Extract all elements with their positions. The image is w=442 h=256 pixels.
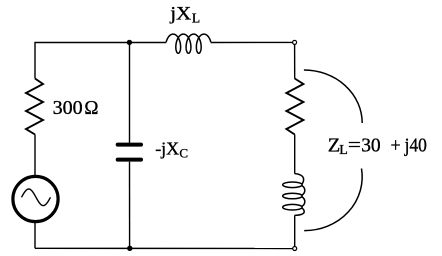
svg-text:+: + bbox=[391, 135, 401, 157]
svg-text:=: = bbox=[348, 134, 361, 157]
svg-text:300: 300 bbox=[53, 97, 83, 119]
svg-text:-jX: -jX bbox=[155, 139, 179, 159]
svg-text:C: C bbox=[179, 146, 188, 161]
svg-text:Ω: Ω bbox=[84, 97, 98, 119]
svg-text:j40: j40 bbox=[404, 134, 427, 157]
svg-text:L: L bbox=[339, 143, 348, 158]
svg-text:jX: jX bbox=[169, 3, 192, 24]
svg-text:L: L bbox=[192, 10, 200, 25]
svg-text:30: 30 bbox=[361, 134, 380, 157]
